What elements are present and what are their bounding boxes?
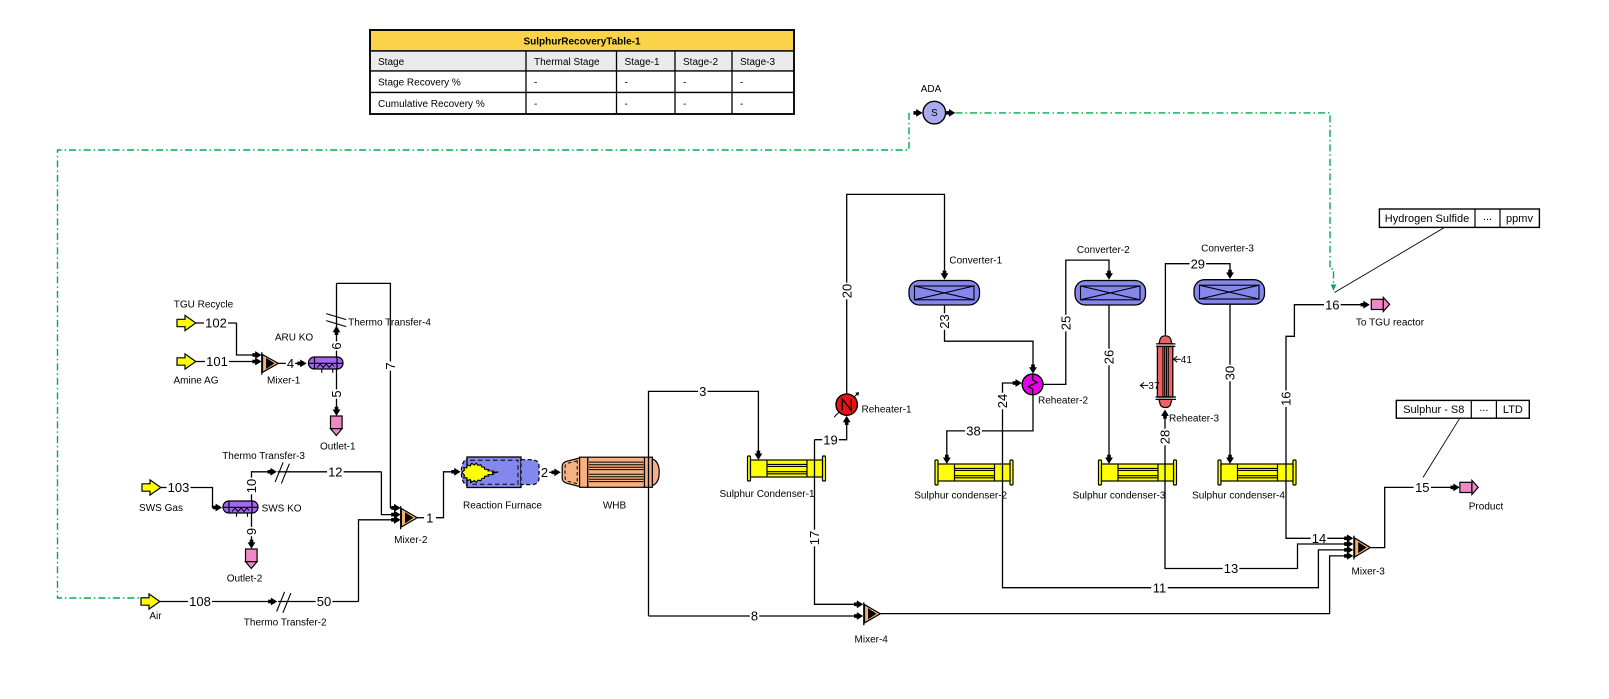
- svg-text:-: -: [683, 99, 686, 110]
- svg-text:37: 37: [1148, 381, 1160, 392]
- svg-text:Reheater-1: Reheater-1: [861, 404, 911, 415]
- svg-text:Thermal Stage: Thermal Stage: [534, 57, 600, 68]
- svg-text:8: 8: [751, 609, 758, 624]
- svg-text:-: -: [625, 99, 628, 110]
- stream 5 line: [329, 369, 344, 416]
- svg-text:26: 26: [1102, 350, 1117, 364]
- svg-text:24: 24: [995, 394, 1010, 408]
- svg-text:9: 9: [244, 528, 259, 535]
- stream 6 line with Thermo Transfer-4 marks: [326, 283, 431, 357]
- furnace Reaction Furnace: [461, 457, 542, 511]
- stream 23 line: [937, 305, 1037, 374]
- svg-text:Reheater-3: Reheater-3: [1169, 414, 1219, 425]
- svg-text:Sulphur condenser-2: Sulphur condenser-2: [914, 490, 1007, 501]
- stream 24 line: [995, 379, 1022, 485]
- reactor Converter-2: [1075, 245, 1146, 305]
- stream 41 marker: [1174, 355, 1193, 366]
- stream 12 line with Thermo Transfer-3 marks: [222, 451, 400, 519]
- svg-text:Thermo Transfer-4: Thermo Transfer-4: [348, 317, 431, 328]
- svg-text:To TGU reactor: To TGU reactor: [1356, 318, 1425, 329]
- stream 38 line: [943, 395, 1033, 464]
- svg-text:TGU Recycle: TGU Recycle: [174, 300, 234, 311]
- signal line ADA to air (green dash-dot): [58, 113, 910, 598]
- stream 30 line: [1223, 304, 1238, 464]
- svg-text:Reaction Furnace: Reaction Furnace: [463, 500, 542, 511]
- exchanger Reheater-3: [1156, 336, 1220, 425]
- svg-text:Stage-2: Stage-2: [683, 57, 718, 68]
- svg-text:102: 102: [205, 316, 227, 331]
- reactor Converter-3: [1194, 243, 1265, 304]
- svg-text:11: 11: [1153, 580, 1167, 595]
- svg-text:S: S: [931, 108, 938, 119]
- svg-text:...: ...: [1479, 402, 1488, 414]
- svg-text:17: 17: [807, 531, 822, 545]
- svg-text:Sulphur - S8: Sulphur - S8: [1403, 404, 1464, 416]
- stream 1 line: [417, 468, 460, 525]
- stream 108-50 line with Thermo Transfer-2 marks: [160, 516, 401, 629]
- stream 101 line: [196, 354, 262, 369]
- svg-text:4: 4: [287, 356, 294, 371]
- stream 16 line: [1279, 297, 1370, 485]
- svg-text:SWS KO: SWS KO: [262, 504, 302, 515]
- stream 7 line: [337, 283, 401, 511]
- svg-text:Mixer-1: Mixer-1: [267, 376, 301, 387]
- svg-text:41: 41: [1181, 355, 1193, 366]
- condenser Sulphur Condenser-1: [719, 456, 825, 500]
- stream 14 line: [1286, 485, 1353, 546]
- svg-text:15: 15: [1415, 480, 1429, 495]
- svg-text:Thermo Transfer-2: Thermo Transfer-2: [244, 618, 327, 629]
- svg-text:...: ...: [1483, 211, 1492, 223]
- svg-text:25: 25: [1058, 316, 1073, 330]
- property table Sulphur - S8: [1396, 400, 1529, 477]
- svg-text:ADA: ADA: [921, 84, 942, 95]
- stream 9 line: [244, 513, 259, 549]
- svg-text:-: -: [740, 99, 743, 110]
- stream 4 line: [278, 356, 306, 371]
- separator SWS KO: [223, 501, 302, 517]
- svg-text:103: 103: [168, 480, 190, 495]
- svg-text:6: 6: [329, 342, 344, 349]
- stream 10 line: [244, 472, 269, 501]
- svg-text:-: -: [534, 77, 537, 88]
- svg-text:Product: Product: [1469, 502, 1504, 513]
- stream 25 line: [1043, 260, 1113, 384]
- svg-text:Converter-2: Converter-2: [1077, 245, 1130, 256]
- svg-text:5: 5: [329, 390, 344, 397]
- stream 28 line: [1158, 410, 1173, 486]
- svg-text:19: 19: [823, 432, 837, 447]
- svg-text:SulphurRecoveryTable-1: SulphurRecoveryTable-1: [523, 36, 641, 47]
- outlet To TGU reactor: [1356, 297, 1425, 328]
- svg-text:Stage: Stage: [378, 57, 405, 68]
- svg-text:28: 28: [1158, 430, 1173, 444]
- stream 3 line: [649, 384, 763, 616]
- stream 29 line: [1165, 256, 1234, 336]
- mixer Mixer-1: [262, 352, 301, 386]
- svg-text:Stage-3: Stage-3: [740, 57, 775, 68]
- stream 103 SWS Gas feed arrow: [139, 480, 183, 514]
- svg-text:-: -: [534, 99, 537, 110]
- svg-text:Thermo Transfer-3: Thermo Transfer-3: [222, 451, 305, 462]
- condenser Sulphur condenser-2: [914, 460, 1013, 501]
- svg-text:10: 10: [244, 479, 259, 493]
- stream 108 Air feed arrow: [141, 594, 162, 622]
- svg-text:Outlet-2: Outlet-2: [227, 573, 263, 584]
- svg-text:3: 3: [699, 384, 706, 399]
- svg-text:50: 50: [317, 594, 331, 609]
- svg-text:1: 1: [426, 510, 433, 525]
- svg-text:LTD: LTD: [1503, 404, 1523, 416]
- svg-text:Mixer-2: Mixer-2: [394, 535, 428, 546]
- svg-text:16: 16: [1325, 297, 1339, 312]
- svg-text:30: 30: [1223, 366, 1238, 380]
- svg-text:101: 101: [206, 354, 228, 369]
- stream 2 line: [539, 465, 561, 480]
- svg-text:2: 2: [541, 465, 548, 480]
- svg-text:Converter-3: Converter-3: [1201, 243, 1254, 254]
- stream 19 line: [815, 416, 851, 448]
- svg-text:SWS Gas: SWS Gas: [139, 503, 183, 514]
- mixer Mixer-4: [855, 602, 889, 645]
- stream 102 TGU Recycle feed arrow: [174, 300, 234, 331]
- stream 15 line: [1371, 480, 1460, 548]
- outlet Outlet-1: [320, 416, 356, 452]
- svg-text:-: -: [683, 77, 686, 88]
- svg-text:16: 16: [1279, 391, 1294, 405]
- svg-text:108: 108: [189, 594, 211, 609]
- svg-text:20: 20: [839, 284, 854, 298]
- svg-text:ppmv: ppmv: [1506, 213, 1533, 225]
- svg-text:23: 23: [937, 314, 952, 328]
- outlet Product: [1460, 480, 1504, 512]
- svg-text:-: -: [625, 77, 628, 88]
- condenser Sulphur condenser-4: [1192, 460, 1296, 501]
- signal line ADA to stream 16 (green dash-dot): [956, 113, 1337, 291]
- svg-text:Hydrogen Sulfide: Hydrogen Sulfide: [1385, 213, 1469, 225]
- exchanger Reheater-2: [1022, 374, 1088, 406]
- svg-text:Air: Air: [149, 611, 162, 622]
- mixer Mixer-2: [391, 504, 428, 546]
- svg-text:13: 13: [1224, 561, 1238, 576]
- outlet Outlet-2: [227, 549, 263, 584]
- svg-text:29: 29: [1191, 256, 1205, 271]
- svg-text:Mixer-4: Mixer-4: [855, 634, 889, 645]
- stream 20 line: [839, 194, 948, 394]
- svg-text:7: 7: [383, 362, 398, 369]
- separator ARU KO: [275, 332, 343, 373]
- svg-text:Sulphur condenser-4: Sulphur condenser-4: [1192, 490, 1285, 501]
- table SulphurRecoveryTable-1: [370, 30, 794, 114]
- svg-text:38: 38: [966, 424, 980, 439]
- svg-text:Stage Recovery %: Stage Recovery %: [378, 77, 461, 88]
- stream 8 line: [649, 609, 864, 624]
- svg-text:Stage-1: Stage-1: [625, 57, 660, 68]
- exchanger WHB: [562, 457, 659, 511]
- svg-text:Reheater-2: Reheater-2: [1038, 395, 1088, 406]
- stream 26 line: [1102, 305, 1117, 464]
- stream 13 line: [1165, 485, 1353, 576]
- svg-text:-: -: [740, 77, 743, 88]
- heater Reheater-1: [834, 392, 912, 417]
- svg-text:Sulphur Condenser-1: Sulphur Condenser-1: [719, 489, 814, 500]
- property table Hydrogen Sulfide: [1335, 209, 1540, 293]
- svg-text:Outlet-1: Outlet-1: [320, 441, 356, 452]
- mixer-4 outlet line: [881, 552, 1354, 614]
- condenser Sulphur condenser-3: [1073, 460, 1177, 501]
- svg-text:ARU KO: ARU KO: [275, 332, 314, 343]
- stream 11 line: [1003, 485, 1354, 595]
- stream 17 line: [807, 440, 863, 609]
- stream 103 line: [161, 480, 222, 511]
- reactor Converter-1: [909, 256, 1003, 305]
- svg-text:12: 12: [328, 464, 342, 479]
- svg-text:Amine AG: Amine AG: [173, 376, 218, 387]
- svg-text:Mixer-3: Mixer-3: [1352, 567, 1386, 578]
- svg-text:Converter-1: Converter-1: [949, 256, 1002, 267]
- stream 37 marker: [1140, 381, 1160, 392]
- svg-text:WHB: WHB: [603, 500, 627, 511]
- mixer Mixer-3: [1352, 536, 1386, 578]
- stream 102 line: [196, 316, 262, 359]
- stream 101 Amine AG feed arrow: [173, 354, 218, 387]
- adjust ADA: [913, 84, 955, 124]
- svg-text:Sulphur condenser-3: Sulphur condenser-3: [1073, 490, 1166, 501]
- svg-text:Cumulative Recovery %: Cumulative Recovery %: [378, 99, 485, 110]
